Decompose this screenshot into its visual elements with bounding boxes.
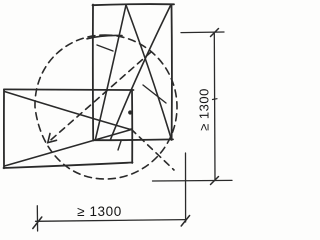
- turning circle top long dash: [87, 35, 122, 38]
- R1 diagonal: apex to bottom-left: [96, 5, 127, 139]
- stray sketch mark mid: [143, 85, 166, 103]
- right dimension tick bottom: [211, 177, 219, 185]
- stray sketch mark upper: [97, 45, 113, 51]
- R1 diagonal: top-right corner to bottom edge: [111, 5, 172, 140]
- turning circle (dashed): [35, 35, 177, 179]
- right dimension line: [213, 33, 216, 181]
- svg-text:≥ 1300: ≥ 1300: [197, 88, 212, 131]
- bottom dimension tick left: [33, 217, 42, 229]
- ink blob on R2 right edge: [128, 110, 132, 114]
- R2 diagonal: bottom-left to right-middle: [5, 130, 132, 166]
- dashed movement line D1: [48, 52, 151, 143]
- right dimension tick top: [211, 29, 219, 37]
- dashed movement line D2: [131, 129, 174, 170]
- svg-text:≥ 1300: ≥ 1300: [77, 204, 122, 219]
- furniture rectangle R1 (tall, top): [93, 4, 175, 140]
- arrowhead of D1: [48, 134, 57, 143]
- bottom dimension line: [36, 220, 187, 222]
- R1 diagonal: apex to bottom-right: [126, 5, 171, 139]
- right dimension extension line bottom: [153, 179, 233, 182]
- bottom dimension tick right: [181, 216, 189, 227]
- R2 diagonal: top-left to right-middle: [5, 92, 132, 130]
- bottom dimension extension line right: [185, 153, 187, 222]
- small tick on right dimension line: [213, 98, 218, 101]
- stray sketch mark below R1 bottom edge: [118, 141, 121, 150]
- furniture rectangle R2 (wide, left): [4, 89, 134, 168]
- right dimension extension line top: [181, 31, 224, 34]
- bottom dimension extension line left: [36, 206, 38, 231]
